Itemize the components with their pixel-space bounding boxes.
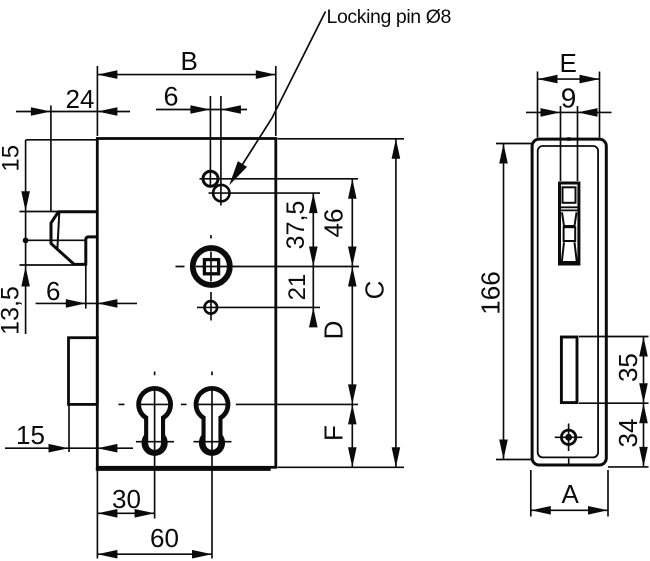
bolt segment trapezoid upper xyxy=(562,212,577,226)
svg-text:34: 34 xyxy=(613,419,643,448)
pin hole center line horizontal / 46 extension xyxy=(200,178,359,180)
svg-text:37,5: 37,5 xyxy=(282,201,310,250)
svg-text:F: F xyxy=(319,425,349,441)
svg-text:6: 6 xyxy=(164,82,179,112)
bolt slot xyxy=(560,183,579,264)
latch bevel inner edge xyxy=(57,213,59,249)
svg-text:6: 6 xyxy=(46,276,60,306)
label 21 xyxy=(284,274,311,301)
label 15 xyxy=(0,145,24,172)
center line dash between keyholes xyxy=(119,403,187,405)
label D xyxy=(319,321,349,340)
chain dimension line vertical xyxy=(25,140,27,334)
label 35 xyxy=(613,353,643,382)
lower pin horizontal line / 21 extension xyxy=(197,306,320,308)
bottom edge extension right xyxy=(278,466,405,468)
svg-text:24: 24 xyxy=(66,84,95,114)
latch bottom extension left xyxy=(20,264,75,266)
faceplate bottom lip xyxy=(96,468,271,471)
24 dimension line xyxy=(16,111,130,113)
pin hole circle xyxy=(203,171,218,186)
body top extension left xyxy=(26,139,96,141)
lock case body outline xyxy=(97,139,275,468)
euro cylinder keyhole right xyxy=(194,372,232,559)
svg-text:C: C xyxy=(360,281,390,300)
pin hole center line vertical xyxy=(209,96,211,188)
svg-text:Locking pin Ø8: Locking pin Ø8 xyxy=(327,6,451,28)
latch center extension left xyxy=(26,239,85,241)
svg-text:21: 21 xyxy=(284,274,311,301)
label 46 xyxy=(319,209,349,238)
follower square hole xyxy=(204,260,218,274)
lower pin circle xyxy=(205,301,218,314)
bolt segment trapezoid lower xyxy=(562,242,577,262)
24 extension line xyxy=(50,106,52,212)
svg-text:D: D xyxy=(319,321,349,340)
cylinder housing protrusion xyxy=(69,338,98,405)
60 dimension line xyxy=(97,553,212,555)
F dimension line xyxy=(351,404,353,467)
6 dimension line xyxy=(156,109,247,111)
6 dimension line xyxy=(36,302,137,304)
latch bolt xyxy=(51,212,97,265)
extension line below housing xyxy=(68,404,70,452)
latch top extension left xyxy=(20,211,59,213)
svg-text:15: 15 xyxy=(0,145,24,172)
euro cylinder keyhole left xyxy=(136,372,174,519)
37,5 dimension line xyxy=(312,193,314,266)
30 dimension line xyxy=(97,512,154,514)
locking pin center line vertical xyxy=(220,96,222,206)
46 dimension line xyxy=(351,179,353,267)
label 37,5 xyxy=(282,201,310,250)
fixing screw xyxy=(561,430,575,444)
stub extension line xyxy=(85,264,87,308)
svg-text:E: E xyxy=(560,48,577,78)
C dimension line xyxy=(395,139,397,468)
15 dimension line xyxy=(5,447,133,449)
follower ring xyxy=(193,248,230,285)
svg-text:60: 60 xyxy=(150,523,179,553)
svg-text:30: 30 xyxy=(112,484,141,514)
svg-text:166: 166 xyxy=(476,271,506,314)
chain dot xyxy=(23,238,29,244)
label 34 xyxy=(613,419,643,448)
svg-text:B: B xyxy=(181,46,198,76)
label 13,5 xyxy=(0,286,25,335)
side case outer outline xyxy=(532,139,606,465)
21 dimension line xyxy=(312,267,314,319)
D dimension line xyxy=(351,267,353,405)
svg-text:A: A xyxy=(562,479,580,509)
bolt divider lines xyxy=(561,207,578,210)
follower vertical center line xyxy=(210,235,212,321)
side case inner outline xyxy=(538,146,598,457)
svg-text:35: 35 xyxy=(613,353,643,382)
label 166 xyxy=(476,271,506,314)
left extension line xyxy=(96,470,98,559)
B extension lines xyxy=(97,66,275,136)
svg-text:15: 15 xyxy=(16,420,45,450)
locking pin center line horizontal / 37,5 extension xyxy=(209,192,321,194)
keyhole center line horizontal / F extension xyxy=(236,403,358,405)
follower horizontal center line / D extension xyxy=(176,266,360,268)
top edge tick xyxy=(567,137,570,141)
bolt segment middle rect xyxy=(564,227,576,241)
svg-text:9: 9 xyxy=(561,83,577,114)
svg-text:13,5: 13,5 xyxy=(0,286,25,335)
locking pin circle xyxy=(213,185,229,201)
label C xyxy=(360,281,390,300)
B dimension line xyxy=(97,74,275,76)
cylinder slot rect xyxy=(561,337,577,403)
top edge extension right xyxy=(278,138,405,140)
bottom seam line xyxy=(568,458,570,466)
label F xyxy=(319,425,349,441)
bolt segment top rect xyxy=(563,187,576,203)
svg-text:46: 46 xyxy=(319,209,349,238)
